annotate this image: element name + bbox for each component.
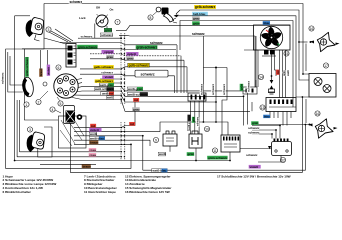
svg-text:11 Gleichrichter Hupe: 11 Gleichrichter Hupe (84, 190, 116, 194)
svg-text:schwarz: schwarz (1, 72, 5, 84)
label schwarz vertical above 10 (196, 116, 199, 127)
label rosa b (89, 153, 97, 157)
svg-text:grau: grau (193, 17, 200, 21)
wire violett row (90, 54, 181, 56)
wire top-left corner horizontal (15, 15, 30, 17)
svg-text:hell-blau: hell-blau (193, 12, 206, 16)
label gruen-schwarz row right (136, 45, 158, 49)
wire mesh vertical b (176, 45, 178, 93)
indicator lamps 4 Kontrollleuchten (59, 106, 87, 149)
label schwarz right side c (245, 153, 258, 157)
node junction (215, 67, 217, 69)
arrow down near regulator (268, 146, 271, 149)
electronic unit 13 Elektronikzentrale (266, 98, 296, 112)
label violett row2 (89, 128, 101, 132)
svg-text:grün-schwarz: grün-schwarz (78, 45, 98, 49)
wire weiss-rot row (82, 95, 216, 102)
svg-text:grün-schwarz: grün-schwarz (208, 156, 228, 160)
label gruen vertical right (240, 83, 244, 90)
wire gruen vertical right (243, 96, 245, 125)
spark plug 14 Zuendkerze (268, 76, 275, 94)
label gruen right side (251, 121, 258, 125)
label braun vertical (39, 68, 43, 77)
svg-text:11: 11 (213, 149, 217, 153)
label 14 (258, 74, 263, 79)
wire loop right tall (244, 50, 258, 87)
wire bottom long y172 (70, 97, 302, 172)
wire gelb-schwarz row (80, 67, 187, 69)
svg-text:14: 14 (259, 75, 263, 79)
svg-text:15: 15 (285, 52, 289, 56)
wire mesh vertical a (174, 76, 176, 93)
label weiss-schwarz right (127, 92, 148, 96)
wire left vertical x17 (17, 100, 121, 157)
label gruen boxed at ignition (104, 28, 112, 32)
label braun row2 (89, 141, 98, 145)
arrow gelb-schwarz end (175, 15, 178, 18)
svg-text:16: 16 (316, 112, 320, 116)
label violett left (102, 50, 114, 54)
svg-text:weiß: weiß (158, 152, 166, 156)
label violett vertical (47, 65, 51, 76)
label 11 (212, 148, 217, 153)
front blinker 3 top-left (26, 18, 44, 42)
svg-text:blau: blau (264, 21, 270, 25)
wire gruen-schwarz vertical (24, 49, 58, 120)
wire mesh vertical d (183, 60, 185, 93)
label gelb-schwarz top (194, 5, 216, 9)
label 8 (148, 15, 153, 20)
svg-text:Lock: Lock (79, 16, 86, 20)
wire braun row2 (74, 143, 131, 145)
label rot row2 right (129, 122, 135, 126)
svg-text:10: 10 (205, 127, 209, 131)
svg-text:3: 3 (48, 28, 50, 32)
label schwarz vertical mesh3 (222, 83, 226, 95)
svg-text:schwarz: schwarz (198, 116, 200, 126)
label 3 bottom (27, 127, 32, 132)
label gruen top (192, 21, 200, 25)
label gruen-schwarz under 11 (207, 156, 228, 160)
label schwarz left (101, 70, 114, 74)
svg-text:rosa: rosa (90, 153, 97, 157)
svg-text:schwarz: schwarz (101, 70, 113, 74)
svg-text:gelb-schwarz: gelb-schwarz (94, 65, 114, 69)
wire 4pin connector outputs (190, 101, 192, 134)
label schwarz vertical right (247, 80, 251, 92)
wire headlamp diagonals (44, 38, 66, 44)
svg-text:3: 3 (29, 128, 31, 132)
svg-text:grau: grau (106, 55, 113, 59)
svg-text:violett: violett (127, 52, 136, 56)
svg-text:grün: grün (252, 121, 259, 125)
svg-text:4: 4 (52, 108, 54, 112)
wire horn feed b (10, 56, 23, 85)
legend column 2 (84, 174, 118, 194)
legend column 1 (3, 174, 57, 194)
wire schwarz row boxed (80, 74, 175, 76)
svg-text:blau: blau (264, 115, 270, 119)
label schwarz boxed big (135, 70, 168, 77)
svg-text:1: 1 (26, 103, 28, 107)
horn 1 Hupe (21, 77, 34, 98)
label weiss-rot pin (101, 91, 114, 95)
wire left vertical x14.6 (14, 16, 16, 161)
label gruen under 10 (187, 152, 195, 156)
wire schwarz mid top (119, 35, 255, 87)
svg-text:grau: grau (127, 56, 134, 60)
svg-text:rot: rot (276, 70, 280, 74)
label schwarz mid (191, 32, 205, 36)
connector 6 round multipin (54, 74, 78, 98)
svg-text:schwarz: schwarz (222, 83, 226, 95)
wire violett vertical (47, 50, 49, 74)
svg-text:13: 13 (261, 106, 265, 110)
svg-text:schwarz: schwarz (248, 126, 260, 130)
wire 13 blau label (263, 115, 270, 119)
label braun bottom (82, 165, 91, 169)
wire weiss row (82, 100, 250, 112)
ignition switch 7 Zuendschloss (96, 14, 108, 27)
label grau top (192, 17, 200, 21)
svg-text:weiß-schwarz: weiß-schwarz (127, 92, 148, 96)
svg-text:braun: braun (39, 68, 43, 76)
label rot right (133, 98, 139, 102)
voltage regulator 12 Spannungsregler (272, 139, 292, 156)
wire schwarz vertical 1 (202, 101, 204, 122)
magneto 15 Schwunglicht-Magnetzuender (254, 25, 291, 50)
label 15 (284, 51, 289, 56)
wire 10 bottom stub (195, 148, 197, 161)
label 13 (260, 105, 265, 110)
wire weiss-schwarz row (82, 91, 244, 96)
wire horn feed a (8, 52, 23, 92)
svg-text:schwarz: schwarz (248, 131, 260, 135)
label violett right side (249, 165, 261, 169)
wire mesh horizontal join (204, 67, 228, 69)
svg-text:grün-schwarz: grün-schwarz (25, 57, 29, 76)
wire connector fan lines (74, 79, 82, 81)
magneto label blau (263, 21, 270, 25)
label gelb-schwarz pin (95, 79, 114, 83)
svg-text:weiß-schwarz: weiß-schwarz (189, 114, 191, 130)
label weiss pin (106, 96, 114, 100)
wire rosa long line (15, 160, 230, 162)
svg-text:schwarz: schwarz (81, 34, 93, 38)
label 17 (323, 63, 328, 68)
svg-text:5: 5 (60, 102, 62, 106)
wire blinker16a feed (299, 41, 308, 43)
fuel level sender 10 Benzinstandsgeber (189, 131, 202, 148)
label schwarz vertical mesh1 (200, 83, 204, 95)
label gruen vertical above 10 (192, 116, 195, 122)
label 12 (280, 157, 285, 162)
svg-text:grün: grün (105, 28, 112, 32)
svg-text:gelb-schwarz: gelb-schwarz (129, 63, 150, 67)
svg-text:grün: grün (240, 83, 244, 90)
rectifier 11 Gleichrichter (221, 135, 240, 152)
svg-text:16: 16 (310, 27, 314, 31)
label 7 (115, 19, 120, 24)
svg-text:grün-schwarz: grün-schwarz (137, 45, 158, 49)
wire bottom left rosa stub (40, 163, 96, 165)
svg-text:schwarz: schwarz (150, 41, 163, 45)
wire 9 bottom stub (169, 146, 171, 152)
label schwarz lamp left (80, 34, 93, 38)
wire bottom long y170 (143, 125, 306, 171)
wire blinker3 bottom frame (38, 127, 52, 157)
node connector column 2 dashed (120, 122, 122, 160)
label 2 with leader (40, 91, 48, 99)
svg-text:Off: Off (96, 6, 100, 10)
wire gruen-schwarz row (22, 48, 176, 51)
node connector column dashed (120, 33, 122, 105)
label violett right (126, 52, 138, 56)
svg-text:gelb-schwarz: gelb-schwarz (195, 5, 216, 9)
svg-text:12: 12 (281, 158, 285, 162)
svg-text:On: On (110, 8, 114, 12)
svg-text:6: 6 (58, 66, 60, 70)
magneto coil marks (264, 50, 269, 55)
wire schwarz vertical right (247, 91, 249, 125)
label weiss under 9 (158, 152, 166, 156)
wire ignition right down (106, 26, 108, 29)
svg-text:17: 17 (324, 64, 328, 68)
wire schwarz vertical 2 (215, 68, 217, 123)
label weiss-blau row2 (89, 136, 105, 140)
wire mesh vertical e (186, 67, 188, 93)
wire blinker16 link vertical (305, 44, 307, 72)
wire gruen row right a (252, 126, 280, 139)
wire schwarz lamp row (78, 37, 121, 39)
node column2 pins (121, 127, 122, 128)
wire schwarz row right c (252, 134, 272, 139)
svg-text:schwarz: schwarz (70, 0, 83, 4)
label 6 (56, 65, 61, 70)
svg-text:grün: grün (193, 21, 200, 25)
wire schwarz vertical 3 (222, 68, 227, 136)
label grau left (106, 55, 114, 59)
wire left vertical x19.6 (20, 100, 121, 152)
label hell-blau (192, 12, 208, 16)
node column pins (121, 38, 122, 39)
wire gelb-schwarz short row (100, 82, 121, 84)
svg-text:grau: grau (133, 107, 140, 111)
wire gruen to rear blinker (252, 124, 310, 126)
svg-text:grün: grün (282, 70, 286, 76)
wire violett short row (100, 78, 121, 80)
wire weiss row2 (74, 136, 143, 170)
wire 13 to 12 verticals (269, 112, 271, 119)
svg-text:violett: violett (104, 50, 113, 54)
wire gruen top (116, 30, 126, 32)
wire labels under magneto (276, 70, 280, 75)
svg-text:17 Schlußleuchte 12V 5W / Brem: 17 Schlußleuchte 12V 5W / Bremsleuchte 1… (217, 174, 291, 178)
svg-text:schwarz: schwarz (247, 80, 251, 92)
label 1 (24, 102, 29, 107)
rear blinker 16 top-right (310, 32, 340, 51)
front blinker 3 bottom-left (27, 132, 45, 152)
svg-text:9: 9 (155, 138, 157, 142)
svg-text:weiß-grün: weiß-grün (127, 87, 142, 91)
label gruen-schwarz row left (77, 45, 98, 49)
label weiss-gruen right (127, 87, 143, 91)
svg-text:schwarz: schwarz (192, 32, 205, 36)
svg-text:rosa: rosa (90, 148, 97, 152)
wire regulator ground (258, 156, 281, 163)
wire weiss-gruen row (82, 87, 248, 91)
wire braun big left loop (6, 4, 131, 169)
svg-text:violett: violett (250, 165, 259, 169)
arrow hell-blau end (174, 14, 177, 17)
svg-text:weiß-blau: weiß-blau (152, 169, 167, 173)
label schwarz vertical mesh2 (211, 83, 215, 95)
junction dots (298, 41, 300, 43)
svg-text:16 Blinkleuchte hinten 12V 5W: 16 Blinkleuchte hinten 12V 5W (125, 190, 170, 194)
tail light 17 Schlussleuchte (309, 74, 336, 98)
svg-text:8: 8 (150, 16, 152, 20)
brake light switch 8 (153, 7, 177, 23)
svg-text:schwarz: schwarz (141, 73, 155, 77)
label 10 (204, 126, 209, 131)
wire weiss-blau row2 (74, 140, 150, 146)
magneto output wires (271, 50, 273, 76)
label 16 bottom (315, 111, 320, 116)
label grau right (126, 56, 134, 60)
svg-text:grün: grün (193, 116, 195, 122)
wire 11 bottom stub (229, 152, 231, 161)
label weiss-schwarz vertical above 10 (188, 114, 191, 131)
legend column 4 (217, 174, 291, 178)
wire gelb-schwarz top (176, 10, 309, 80)
svg-text:braun: braun (90, 141, 99, 145)
wire mesh vertical c (180, 56, 182, 93)
svg-text:braun: braun (83, 165, 92, 169)
label rosa a (89, 148, 97, 152)
wire 11 to 12 link (240, 148, 272, 150)
legend column 3 (125, 174, 172, 194)
label schwarz right side b (247, 131, 260, 135)
label 3 top (46, 27, 51, 32)
wire schwarz top horizontal (44, 4, 309, 75)
label rot row2 left (90, 124, 96, 128)
svg-text:schwarz: schwarz (211, 83, 215, 95)
wire hell-blau top (175, 16, 309, 97)
svg-text:rot: rot (130, 122, 134, 126)
wire ignition left down (94, 24, 96, 39)
flasher relay 9 Blinkgeber (163, 131, 177, 146)
wire violett row2 (74, 122, 228, 135)
label weiss-schwarz pin (94, 87, 114, 91)
label 16 top (309, 26, 314, 31)
wire grau top (180, 21, 296, 108)
wire schwarz row right b (252, 130, 276, 139)
label gruen-schwarz vertical (25, 57, 29, 77)
label schwarz row right (149, 41, 163, 45)
label violett pin (102, 75, 114, 79)
svg-text:weiß: weiß (286, 70, 290, 76)
label schwarz right side a (247, 126, 260, 130)
label 5 with leader (57, 97, 60, 101)
wire schwarz row 44 (60, 43, 177, 45)
connector 4-pin (188, 93, 206, 101)
label schwarz boxed at ignition (100, 33, 113, 37)
rear blinker 16 bottom-right (309, 119, 338, 138)
connector 2-pin dashed (243, 87, 257, 94)
svg-text:schwarz: schwarz (101, 33, 113, 37)
svg-text:7: 7 (117, 20, 119, 24)
wire braun vertical (40, 50, 42, 74)
wire right side gruen (255, 80, 257, 87)
label 4 with leader (55, 110, 61, 113)
svg-text:weiß: weiß (106, 96, 114, 100)
label 9 (153, 137, 158, 142)
wire right pair verticals (251, 102, 253, 111)
svg-text:2: 2 (38, 100, 40, 104)
wire rot row2 (74, 102, 135, 128)
svg-text:6 Blinklichtschalter: 6 Blinklichtschalter (3, 190, 32, 194)
svg-text:violett: violett (47, 67, 51, 75)
label weiss row2 (89, 132, 97, 136)
label schwarz vertical far left (1, 72, 5, 85)
label schwarz top (69, 0, 83, 4)
svg-text:rot: rot (134, 98, 138, 102)
label weiss-blau bottom (152, 169, 168, 173)
label weiss-gruen pin (99, 83, 114, 87)
label gelb-schwarz left (93, 65, 113, 69)
svg-text:schwarz: schwarz (246, 153, 258, 157)
small terminal circle (43, 82, 47, 86)
svg-text:schwarz: schwarz (200, 83, 204, 95)
label gelb-schwarz boxed right (128, 63, 150, 67)
headlamp 2 Scheinwerfer (66, 44, 76, 68)
wire grau row (90, 59, 184, 60)
svg-text:weiß-grün: weiß-grün (99, 83, 114, 87)
label grau right2 (132, 107, 140, 111)
svg-text:grün: grün (188, 152, 195, 156)
